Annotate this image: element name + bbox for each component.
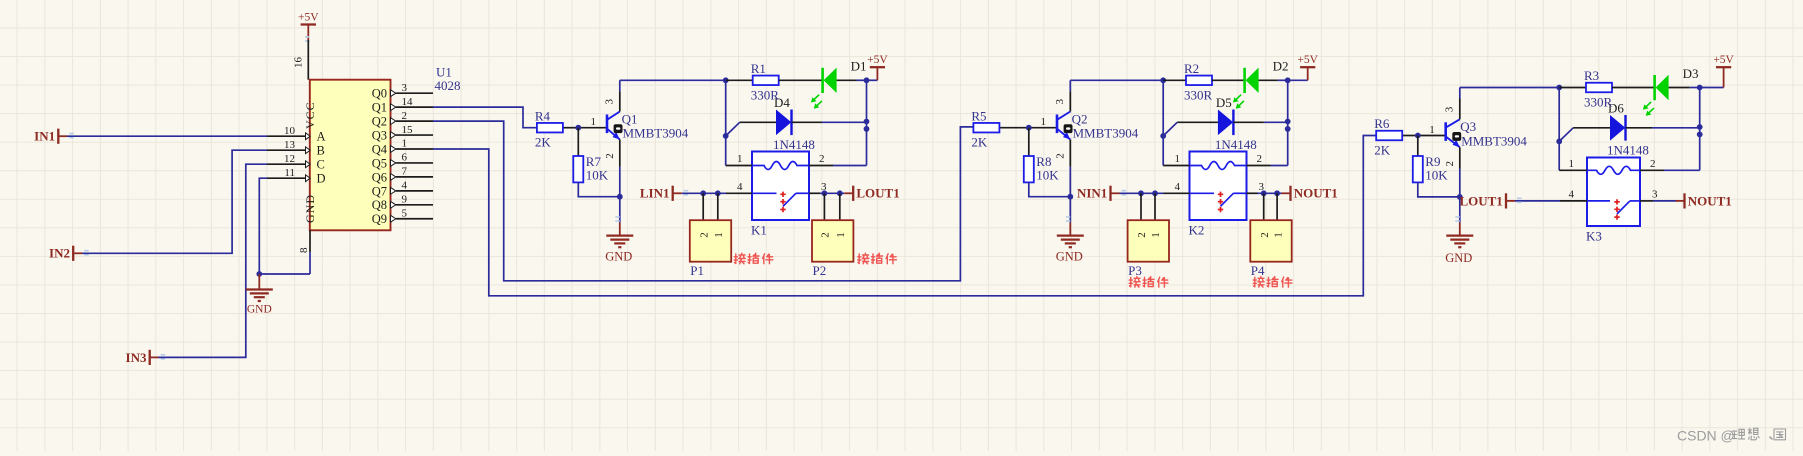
label jie-cha-jian (connector) — [1129, 277, 1140, 288]
svg-text:GND: GND — [1056, 249, 1083, 263]
connector P3 — [1128, 220, 1169, 262]
IC right pins Q0-Q9 — [391, 90, 396, 97]
svg-text:Q6: Q6 — [372, 170, 387, 184]
node P2 taps — [822, 190, 828, 196]
wire pin D to ground node — [259, 178, 267, 274]
svg-text:3: 3 — [1444, 106, 1456, 112]
svg-text:2K: 2K — [535, 135, 552, 150]
wire P2 pin 1 — [839, 193, 841, 220]
svg-text:2: 2 — [1650, 158, 1656, 170]
svg-text:+5V: +5V — [867, 54, 888, 66]
svg-text:GND: GND — [605, 249, 632, 263]
node right vertical junctions — [864, 119, 870, 125]
svg-text:Q1: Q1 — [372, 101, 387, 115]
wire IN1 to pin A — [67, 135, 267, 137]
svg-text:Q3: Q3 — [372, 128, 387, 142]
node +5V junction — [1697, 85, 1703, 91]
label jie-cha-jian (connector) — [1253, 277, 1264, 288]
label jie-cha-jian (connector) — [858, 253, 869, 264]
resistor R8 — [1024, 156, 1034, 182]
svg-text:GND: GND — [247, 303, 272, 315]
svg-text:8: 8 — [298, 247, 310, 253]
wire R8 bottom to emitter — [1029, 182, 1071, 196]
svg-text:4: 4 — [402, 180, 408, 192]
wire pin16 to +5V — [307, 40, 309, 80]
power GND (U1) — [258, 274, 260, 290]
svg-text:Q8: Q8 — [372, 198, 387, 212]
node right vertical junctions — [1697, 124, 1703, 130]
svg-text:1: 1 — [737, 153, 743, 165]
svg-text:MMBT3904: MMBT3904 — [1461, 133, 1527, 148]
LED D1 — [821, 68, 824, 93]
wire relay pin 3 to LOUT1 — [809, 192, 820, 194]
svg-text:+5V: +5V — [298, 12, 319, 24]
svg-text:GND: GND — [303, 194, 317, 223]
wire coil pin 2 — [1247, 165, 1271, 167]
resistor R1 — [753, 76, 779, 86]
wire right vertical — [866, 80, 868, 165]
wire collector net vertical — [1558, 88, 1560, 171]
node base junction Q3 — [1415, 133, 1421, 139]
svg-text:NOUT1: NOUT1 — [1294, 186, 1338, 201]
svg-text:IN2: IN2 — [49, 246, 70, 261]
svg-text:C: C — [317, 158, 325, 172]
svg-text:D3: D3 — [1683, 66, 1699, 81]
wire R9 top — [1417, 136, 1419, 157]
svg-text:R3: R3 — [1584, 68, 1599, 83]
diode D6 — [1610, 115, 1625, 141]
svg-text:Q2: Q2 — [372, 115, 387, 129]
wire right vertical — [1287, 80, 1289, 165]
wire 330R to LED D1 — [779, 79, 823, 81]
wire base node of Q1 — [563, 127, 578, 129]
svg-text:2: 2 — [402, 110, 408, 122]
svg-text:D5: D5 — [1216, 95, 1232, 110]
svg-text:Q4: Q4 — [372, 142, 388, 156]
node +5V junction — [1285, 77, 1291, 83]
wire LOUT1 to relay pin 4 — [1515, 200, 1560, 202]
power GND — [619, 223, 621, 236]
svg-text:14: 14 — [402, 96, 414, 108]
svg-text:2: 2 — [1444, 161, 1456, 167]
wire relay pin 3 to NOUT1 — [1247, 192, 1258, 194]
wire Q2 output bus to circuit 2 — [433, 121, 973, 281]
svg-text:10K: 10K — [586, 168, 609, 183]
wire IN2 to pin B — [82, 150, 267, 253]
svg-text:4: 4 — [737, 181, 743, 193]
svg-text:P1: P1 — [690, 263, 704, 278]
wire diagonal to diode — [1559, 128, 1573, 142]
relay K2 — [1190, 152, 1247, 221]
node emitter junction — [1457, 194, 1463, 200]
wire D6 cathode to right vertical — [1626, 127, 1653, 129]
svg-text:3: 3 — [1652, 188, 1658, 200]
wire emitter of Q1 to GND — [619, 140, 621, 167]
power +5V — [1307, 67, 1309, 80]
svg-text:13: 13 — [284, 139, 296, 151]
svg-text:CSDN @: CSDN @ — [1677, 428, 1735, 444]
wire emitter of Q3 to GND — [1459, 147, 1461, 168]
svg-text:12: 12 — [284, 153, 295, 165]
svg-text:2: 2 — [698, 232, 710, 238]
power +5V — [876, 67, 878, 80]
node diode branch junction — [723, 133, 729, 139]
wire P1 pin 2 — [702, 193, 704, 220]
svg-text:1: 1 — [591, 116, 597, 128]
resistor R7 — [573, 156, 583, 182]
svg-text:1: 1 — [713, 232, 725, 238]
svg-text:1: 1 — [402, 138, 408, 150]
connector P4 — [1250, 220, 1291, 262]
label jie-cha-jian (connector) — [734, 253, 745, 264]
IC U1 4028 body — [310, 80, 391, 231]
svg-text:2: 2 — [819, 153, 825, 165]
resistor R2 — [1186, 76, 1212, 86]
wire R9 bottom to emitter — [1418, 182, 1460, 197]
svg-text:2: 2 — [604, 153, 616, 159]
node diode branch junction — [1160, 133, 1166, 139]
svg-text:7: 7 — [402, 166, 408, 178]
svg-text:LOUT1: LOUT1 — [1459, 193, 1502, 208]
svg-text:MMBT3904: MMBT3904 — [1073, 126, 1139, 141]
wire collector net vertical — [1162, 80, 1164, 165]
wire coil pin 2 — [1640, 169, 1664, 171]
wire R8 top — [1028, 128, 1030, 156]
wire D4 cathode to right vertical — [792, 121, 823, 123]
svg-text:P2: P2 — [813, 263, 827, 278]
wire collector of Q2 — [1069, 91, 1071, 111]
svg-text:D1: D1 — [851, 59, 867, 74]
resistor R6 — [1376, 131, 1402, 141]
svg-text:10K: 10K — [1425, 168, 1448, 183]
svg-text:D: D — [317, 172, 326, 186]
wire P2 pin 2 — [823, 193, 825, 220]
wire ground node to pin 8 — [259, 273, 310, 275]
wire 330R to LED D3 — [1612, 87, 1655, 89]
svg-text:NOUT1: NOUT1 — [1688, 193, 1732, 208]
svg-text:2: 2 — [1054, 153, 1066, 159]
resistor R4 — [537, 123, 563, 133]
wire coil pin 1 — [1559, 169, 1587, 171]
wire coil pin 1 — [1163, 165, 1189, 167]
svg-text:GND: GND — [1445, 251, 1472, 265]
svg-text:R4: R4 — [535, 108, 551, 123]
svg-text:K1: K1 — [751, 223, 767, 238]
node right vertical junctions — [1285, 119, 1291, 125]
wire LED D3 to +5V node — [1669, 87, 1690, 89]
svg-text:2K: 2K — [1374, 143, 1391, 158]
resistor R9 — [1413, 156, 1423, 182]
svg-text:MMBT3904: MMBT3904 — [623, 126, 689, 141]
svg-text:4: 4 — [1175, 181, 1181, 193]
svg-text:1: 1 — [1041, 116, 1047, 128]
svg-text:3: 3 — [1054, 99, 1066, 105]
node base junction Q1 — [575, 125, 581, 131]
wire LED D1 to +5V node — [837, 79, 857, 81]
svg-text:NIN1: NIN1 — [1077, 186, 1107, 201]
svg-text:D2: D2 — [1273, 59, 1289, 74]
node P3 taps — [1138, 190, 1144, 196]
svg-text:15: 15 — [402, 124, 414, 136]
power +5V — [1723, 67, 1725, 87]
wire IN3 to pin C — [159, 164, 268, 357]
svg-text:K3: K3 — [1586, 229, 1602, 244]
wire 330R to LED D2 — [1212, 79, 1245, 81]
node +5V junction — [864, 77, 870, 83]
transistor Q1 — [606, 115, 609, 134]
svg-text:IN3: IN3 — [126, 350, 147, 365]
svg-text:16: 16 — [293, 57, 305, 69]
svg-text:11: 11 — [284, 167, 295, 179]
svg-text:P3: P3 — [1128, 263, 1142, 278]
svg-text:1: 1 — [1272, 232, 1284, 238]
svg-text:LIN1: LIN1 — [640, 186, 670, 201]
svg-text:Q9: Q9 — [372, 212, 387, 226]
IC left pins A B C D — [267, 135, 306, 137]
LED D3 — [1653, 75, 1656, 100]
svg-text:R5: R5 — [971, 108, 986, 123]
svg-text:1: 1 — [1150, 232, 1162, 238]
wire P4 pin 2 — [1263, 193, 1265, 220]
svg-text:9: 9 — [402, 194, 408, 206]
diode D5 — [1218, 110, 1233, 136]
power +5V (U1 supply) — [307, 25, 309, 41]
wire P1 pin 1 — [717, 193, 719, 220]
svg-text:Q2: Q2 — [1072, 111, 1088, 126]
wire Q1 output to circuit 1 — [433, 107, 537, 128]
node collector net junction — [1160, 77, 1166, 83]
svg-text:330R: 330R — [1184, 87, 1213, 102]
svg-text:A: A — [317, 130, 326, 144]
wire base node of Q3 — [1402, 135, 1418, 137]
node collector net junction — [1556, 85, 1562, 91]
wire R7 top — [577, 128, 579, 156]
wire Q4 output bus to circuit 3 — [433, 136, 1376, 296]
node diode branch junction — [1556, 139, 1562, 145]
wire collector of Q1 — [619, 91, 621, 111]
wire R4 row — [726, 79, 753, 81]
wire right vertical — [1699, 88, 1701, 171]
transistor Q3 — [1444, 122, 1447, 141]
svg-text:K2: K2 — [1189, 223, 1205, 238]
wire collector net vertical — [725, 80, 727, 165]
wire NIN1 to relay pin 4 — [1120, 192, 1164, 194]
svg-text:+5V: +5V — [1297, 54, 1318, 66]
connector P2 — [812, 220, 853, 262]
svg-text:10: 10 — [284, 125, 296, 137]
svg-text:R1: R1 — [751, 61, 766, 76]
svg-text:2: 2 — [1257, 153, 1263, 165]
svg-text:1: 1 — [1175, 153, 1181, 165]
svg-text:1: 1 — [835, 232, 847, 238]
node base junction Q2 — [1026, 125, 1032, 131]
wire to +5V symbol — [867, 79, 878, 81]
wire relay pin 3 to NOUT1 — [1640, 200, 1653, 202]
resistor R3 — [1586, 83, 1612, 93]
wire top row — [1559, 87, 1586, 89]
svg-text:2: 2 — [1259, 232, 1271, 238]
wire P4 pin 1 — [1276, 193, 1278, 220]
node P1 taps — [700, 190, 706, 196]
svg-text:Q1: Q1 — [622, 111, 638, 126]
svg-text:4028: 4028 — [435, 78, 461, 93]
svg-text:R2: R2 — [1184, 61, 1199, 76]
wire diagonal to diode — [1163, 122, 1177, 136]
wire to +5V symbol — [1288, 79, 1308, 81]
power GND — [1069, 223, 1071, 236]
relay K1 — [752, 152, 809, 221]
svg-text:Q5: Q5 — [372, 156, 387, 170]
node ground junction — [256, 271, 262, 277]
wire P3 pin 2 — [1140, 193, 1142, 220]
svg-text:IN1: IN1 — [34, 129, 55, 144]
connector P1 — [690, 220, 731, 262]
svg-text:10K: 10K — [1036, 168, 1059, 183]
diode D4 — [776, 110, 791, 136]
svg-text:1: 1 — [1569, 158, 1575, 170]
svg-text:R6: R6 — [1374, 116, 1390, 131]
wire emitter of Q2 to GND — [1069, 140, 1071, 167]
svg-text:Q7: Q7 — [372, 184, 387, 198]
relay K3 — [1587, 158, 1640, 227]
svg-text:VCC: VCC — [303, 101, 317, 129]
resistor R5 — [973, 123, 999, 133]
wire base node of Q2 — [999, 127, 1028, 129]
svg-text:1N4148: 1N4148 — [1607, 143, 1649, 158]
svg-text:5: 5 — [402, 207, 408, 219]
wire coil pin 2 — [809, 165, 833, 167]
svg-text:2: 2 — [820, 232, 832, 238]
svg-text:2K: 2K — [971, 135, 988, 150]
svg-text:2: 2 — [1136, 232, 1148, 238]
svg-text:3: 3 — [604, 99, 616, 105]
svg-text:LOUT1: LOUT1 — [856, 186, 899, 201]
svg-text:P4: P4 — [1251, 263, 1265, 278]
svg-text:1: 1 — [1429, 124, 1435, 136]
wire collector of Q3 — [1459, 99, 1461, 120]
transistor Q2 — [1056, 115, 1059, 134]
svg-text:4: 4 — [1569, 188, 1575, 200]
svg-text:+5V: +5V — [1713, 54, 1734, 66]
svg-text:B: B — [317, 144, 325, 158]
wire to +5V symbol — [1700, 87, 1724, 89]
node collector net junction — [723, 77, 729, 83]
svg-text:1N4148: 1N4148 — [773, 137, 815, 152]
node emitter junction — [617, 194, 623, 200]
wire D5 cathode to right vertical — [1233, 121, 1264, 123]
svg-text:330R: 330R — [751, 87, 780, 102]
svg-text:330R: 330R — [1584, 95, 1613, 110]
LED D2 — [1243, 68, 1246, 93]
svg-text:Q3: Q3 — [1460, 119, 1476, 134]
wire P3 pin 1 — [1154, 193, 1156, 220]
wire LIN1 to relay pin 4 — [682, 192, 726, 194]
svg-text:3: 3 — [402, 82, 408, 94]
wire R5 row — [1163, 79, 1186, 81]
power GND — [1459, 223, 1461, 236]
node emitter junction — [1067, 194, 1073, 200]
wire diagonal to diode — [726, 122, 740, 136]
wire LED D2 to +5V node — [1259, 79, 1278, 81]
svg-text:6: 6 — [402, 152, 408, 164]
wire R7 bottom to emitter — [578, 182, 620, 196]
svg-text:1N4148: 1N4148 — [1215, 137, 1257, 152]
node P4 taps — [1261, 190, 1267, 196]
watermark li-xiang-guo — [1732, 429, 1745, 439]
wire coil pin 1 — [726, 165, 752, 167]
svg-text:Q0: Q0 — [372, 87, 387, 101]
